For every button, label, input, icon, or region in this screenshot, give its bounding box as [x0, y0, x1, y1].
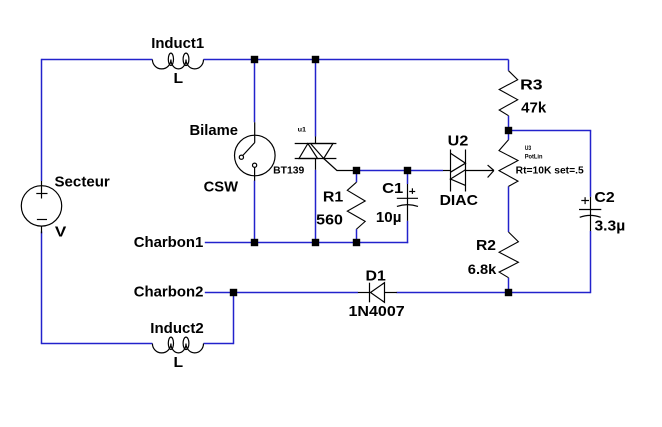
node Charbon2: [230, 289, 237, 296]
svg-text:D1: D1: [366, 268, 386, 285]
svg-text:L: L: [174, 70, 184, 87]
resistor R1: [347, 182, 365, 229]
capacitor C2: [579, 197, 601, 231]
wire Charbon2 rail right of D1: [397, 292, 591, 294]
capacitor C1: [397, 184, 418, 221]
svg-text:Rt=10K set=.5: Rt=10K set=.5: [516, 166, 584, 177]
potentiometer U3 Rt: [499, 140, 518, 187]
svg-text:R3: R3: [520, 77, 543, 94]
node Charbon1 triac: [312, 239, 319, 246]
svg-text:C2: C2: [594, 189, 614, 206]
wire pot top: [508, 131, 510, 140]
svg-text:PotLin: PotLin: [525, 154, 543, 161]
wire bottom rail left segment: [41, 343, 153, 345]
node gate/R1: [353, 167, 360, 174]
inductor Induct2: [152, 337, 203, 353]
svg-text:6.8k: 6.8k: [468, 261, 497, 277]
svg-text:U3: U3: [525, 145, 532, 152]
wire gate node to DIAC: [357, 170, 444, 172]
svg-text:DIAC: DIAC: [440, 192, 478, 209]
wire C2 top vertical: [590, 131, 592, 197]
svg-text:10µ: 10µ: [376, 209, 402, 226]
node top CSW: [251, 56, 258, 63]
node R3/pot: [505, 127, 512, 134]
resistor R2: [499, 232, 518, 278]
svg-text:Induct1: Induct1: [151, 35, 204, 52]
triac U1 (BT139): [295, 137, 357, 171]
wire pot node to C2 horizontal: [509, 130, 592, 132]
wire Charbon1 rail: [205, 242, 408, 244]
wire triac top vertical: [315, 60, 317, 137]
wire C1 bottom vertical: [407, 221, 409, 243]
svg-text:1N4007: 1N4007: [349, 303, 405, 320]
diode D1 (1N4007): [358, 283, 397, 303]
wire top rail right segment: [204, 59, 509, 61]
wire Charbon2 rail left of D1: [205, 292, 358, 294]
wire R2 bottom: [508, 278, 510, 293]
svg-text:Secteur: Secteur: [55, 174, 110, 191]
node C1 top: [404, 167, 411, 174]
svg-text:C1: C1: [382, 180, 403, 197]
svg-text:Bilame: Bilame: [190, 122, 239, 139]
resistor R3: [499, 71, 518, 116]
svg-text:47k: 47k: [521, 99, 547, 116]
svg-text:CSW: CSW: [204, 178, 239, 195]
svg-text:L: L: [174, 354, 184, 371]
wire Induct2 up to Charbon2 node: [233, 293, 235, 345]
wire R3 bottom: [508, 116, 510, 131]
wire left vertical below source: [41, 232, 43, 344]
wire left vertical (Secteur branch): [41, 59, 43, 181]
svg-text:Induct2: Induct2: [150, 320, 203, 337]
diac U2: [443, 150, 466, 192]
svg-text:V: V: [55, 224, 66, 241]
wire R1 top: [356, 171, 358, 183]
svg-text:R1: R1: [323, 188, 343, 205]
wire R1 bottom: [356, 229, 358, 242]
svg-text:R2: R2: [476, 237, 496, 254]
svg-text:u1: u1: [298, 127, 307, 134]
potentiometer wiper arrow: [466, 165, 494, 177]
voltage source V (Secteur): [21, 181, 61, 233]
wire triac bottom vertical: [315, 170, 317, 243]
svg-text:3.3µ: 3.3µ: [595, 217, 626, 234]
wire top rail left segment: [42, 59, 153, 61]
switch CSW (Bilame): [235, 122, 276, 180]
wire C1 top vertical: [407, 171, 409, 185]
svg-text:560: 560: [316, 212, 343, 229]
node Charbon1 CSW: [251, 239, 258, 246]
wire CSW top vertical: [254, 60, 256, 123]
wire R3 top: [508, 60, 510, 71]
wire bottom rail right of Induct2: [204, 343, 234, 345]
inductor Induct1: [152, 53, 203, 69]
node top triac: [312, 56, 319, 63]
svg-text:U2: U2: [448, 133, 469, 150]
node Charbon1 R1: [353, 239, 360, 246]
svg-text:BT139: BT139: [273, 165, 305, 176]
wire pot bottom to R2 top: [508, 186, 510, 232]
svg-text:Charbon1: Charbon1: [134, 234, 204, 251]
wire C2 bottom vertical: [590, 231, 592, 293]
svg-text:Charbon2: Charbon2: [134, 284, 204, 301]
node R2 bottom: [505, 289, 512, 296]
wire CSW bottom vertical: [254, 181, 256, 243]
